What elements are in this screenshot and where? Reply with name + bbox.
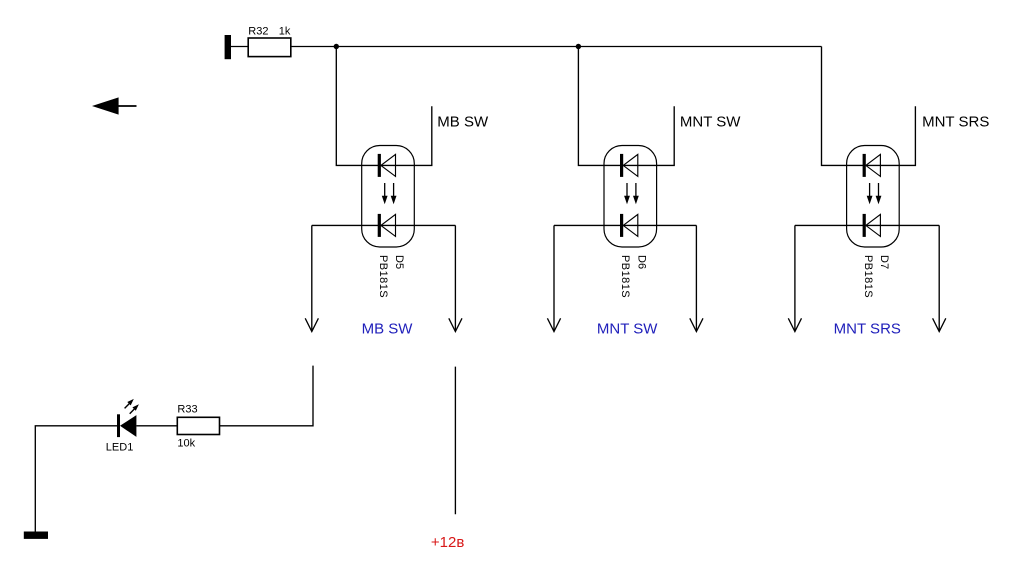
wire through D6 top diode <box>621 164 638 166</box>
terminal pin (left supply stub) <box>225 35 231 59</box>
wire through D7 top diode <box>864 164 881 166</box>
D5 top LED cathode bar <box>378 154 381 177</box>
D7 top LED cathode bar <box>863 154 866 177</box>
D7 bottom LED cathode bar <box>863 214 866 237</box>
D6 bottom LED triangle <box>623 214 638 236</box>
LED1 light arrow 1 <box>125 399 134 409</box>
junction node at D6 branch <box>576 44 581 49</box>
wire +12V drop <box>454 367 456 515</box>
D7 coupling arrow left <box>867 183 873 204</box>
wire D7 pin2 to stub MNT SRS <box>881 106 915 165</box>
D6 coupling arrow right <box>633 183 639 204</box>
D7 coupling arrow right <box>876 183 882 204</box>
svg-text:R33: R33 <box>177 404 197 416</box>
LED1 triangle <box>120 415 136 437</box>
optocoupler D7 body <box>847 146 900 248</box>
D5 bottom LED triangle <box>381 214 396 236</box>
svg-text:LED1: LED1 <box>106 442 134 454</box>
wire LED1 to ground <box>35 426 117 532</box>
svg-text:MNT SW: MNT SW <box>680 114 741 131</box>
D5 coupling arrow right <box>391 183 397 204</box>
LED1 light arrow 2 <box>130 404 139 413</box>
D6 pin4 drop with arrow <box>690 225 703 331</box>
D7 top LED triangle <box>866 154 881 176</box>
resistor R33 <box>177 417 219 434</box>
svg-text:10k: 10k <box>177 438 195 450</box>
svg-text:MB SW: MB SW <box>437 114 489 131</box>
svg-text:PB181S: PB181S <box>377 255 389 298</box>
svg-text:D5: D5 <box>393 255 405 269</box>
left arrow symbol <box>92 97 137 114</box>
wire through D5 top diode <box>379 164 396 166</box>
svg-text:MNT SRS: MNT SRS <box>834 321 901 338</box>
svg-text:1k: 1k <box>279 26 291 38</box>
D7 bottom LED triangle <box>866 214 881 236</box>
D6 pin3 drop with arrow <box>547 225 560 331</box>
D6 top LED cathode bar <box>620 154 623 177</box>
svg-text:MB SW: MB SW <box>362 321 414 338</box>
wire top rail <box>291 46 822 48</box>
wire D5 bottom pins <box>312 224 456 226</box>
wire terminal to R32 <box>231 46 248 48</box>
D6 top LED triangle <box>623 154 638 176</box>
D6 coupling arrow left <box>624 183 630 204</box>
D6 bottom LED cathode bar <box>620 214 623 237</box>
D7 pin3 drop with arrow <box>788 225 801 331</box>
wire rail down to D6 pin1 <box>578 47 621 166</box>
D5 pin4 drop with arrow <box>449 225 462 331</box>
ground symbol <box>24 532 48 539</box>
wire D7 bottom pins <box>795 224 939 226</box>
wire D6 pin2 to stub MNT SW <box>638 106 674 165</box>
junction node at D5 branch <box>334 44 339 49</box>
svg-text:+12в: +12в <box>431 534 464 551</box>
D5 coupling arrow left <box>382 183 388 204</box>
wire MB SW net to R33 <box>219 366 313 426</box>
svg-text:MNT SW: MNT SW <box>597 321 658 338</box>
resistor R32 <box>248 38 291 57</box>
D5 bottom LED cathode bar <box>378 214 381 237</box>
optocoupler D6 body <box>604 146 657 248</box>
LED1 cathode bar <box>117 414 120 437</box>
D5 pin3 drop with arrow <box>305 225 318 331</box>
svg-text:PB181S: PB181S <box>619 255 631 298</box>
svg-text:D6: D6 <box>635 255 647 269</box>
svg-text:R32: R32 <box>248 26 268 38</box>
wire D5 pin2 to stub MB SW <box>396 106 432 165</box>
svg-text:MNT SRS: MNT SRS <box>922 114 989 131</box>
wire rail down to D7 pin1 <box>822 47 865 166</box>
wire rail down to D5 pin1 <box>336 47 379 166</box>
wire D6 bottom pins <box>554 224 696 226</box>
svg-text:PB181S: PB181S <box>862 255 874 298</box>
D5 top LED triangle <box>381 154 396 176</box>
D7 pin4 drop with arrow <box>933 225 946 331</box>
wire LED1 to R33 <box>136 425 177 427</box>
optocoupler D5 body <box>362 146 415 248</box>
svg-text:D7: D7 <box>878 255 890 269</box>
